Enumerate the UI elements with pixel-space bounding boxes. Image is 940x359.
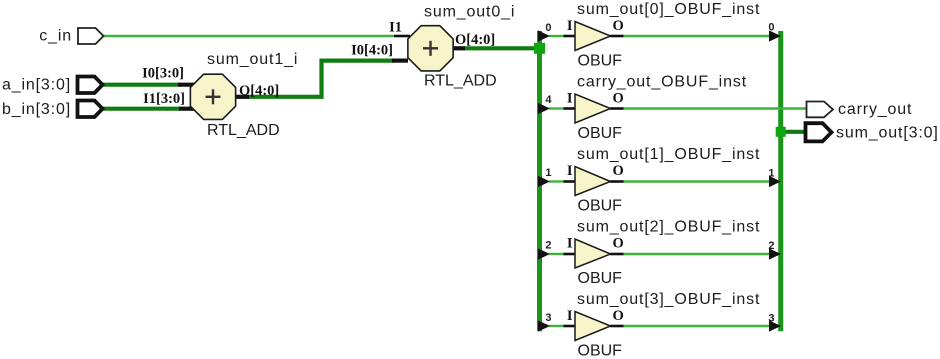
svg-text:I0[3:0]: I0[3:0] <box>142 66 184 82</box>
port b_in[3:0] <box>78 101 103 118</box>
svg-text:sum_out[1]_OBUF_inst: sum_out[1]_OBUF_inst <box>577 146 760 163</box>
svg-text:O[4:0]: O[4:0] <box>239 83 279 99</box>
svg-text:O: O <box>613 308 624 324</box>
bus rip arrow left row1 <box>538 30 550 41</box>
svg-text:I: I <box>567 236 573 252</box>
junction right bus <box>776 127 786 137</box>
pin stub b_in <box>179 107 195 111</box>
svg-text:I0[4:0]: I0[4:0] <box>351 43 393 59</box>
svg-text:carry_out: carry_out <box>838 101 912 118</box>
wire OBUF row5 output to right bus <box>623 325 770 327</box>
op adder U1 sum_out1_i RTL_ADD <box>190 74 235 119</box>
bus rip arrow left row5 <box>538 320 550 331</box>
wire OBUF row4 output to right bus <box>623 253 770 255</box>
wire left bus tap row5 <box>549 325 565 327</box>
svg-text:a_in[3:0]: a_in[3:0] <box>2 77 71 94</box>
svg-text:sum_out[3]_OBUF_inst: sum_out[3]_OBUF_inst <box>577 291 760 308</box>
svg-text:2: 2 <box>768 240 774 252</box>
wire c_in to adder0 I1 <box>104 35 395 37</box>
bus rip arrow right row3 <box>769 176 781 187</box>
wire OBUF row3 output to right bus <box>623 180 770 182</box>
wire OBUF row2 output to carry_out port <box>623 107 807 109</box>
bus rip arrow right row4 <box>769 248 781 259</box>
bus rip arrow left row3 <box>538 176 550 187</box>
svg-text:O: O <box>613 18 624 34</box>
svg-text:O[4:0]: O[4:0] <box>455 32 495 48</box>
wire b_in bus to adder1 I1 <box>103 107 181 111</box>
pin stub adder0 I0 <box>392 58 408 62</box>
wire left bus tap row1 <box>549 35 565 37</box>
pin stub adder1 O <box>234 95 249 99</box>
svg-text:OBUF: OBUF <box>578 125 623 142</box>
svg-text:0: 0 <box>768 22 774 34</box>
svg-text:OBUF: OBUF <box>578 198 623 215</box>
svg-text:b_in[3:0]: b_in[3:0] <box>2 101 71 118</box>
svg-text:1: 1 <box>545 167 551 179</box>
bus rip arrow right row5 <box>769 320 781 331</box>
bus rip arrow right row1 <box>769 30 781 41</box>
wire left bus tap row3 <box>549 180 565 182</box>
svg-text:I: I <box>567 91 573 107</box>
svg-text:1: 1 <box>768 168 774 180</box>
junction left bus <box>534 43 545 54</box>
wire left bus tap row2 <box>549 107 565 109</box>
svg-text:I: I <box>567 163 573 179</box>
svg-text:4: 4 <box>545 94 552 106</box>
svg-text:O: O <box>613 91 624 107</box>
wire a_in bus to adder1 I0 <box>103 83 181 87</box>
pin stub a_in <box>178 83 195 87</box>
svg-text:RTL_ADD: RTL_ADD <box>424 73 497 90</box>
svg-text:O: O <box>613 236 624 252</box>
svg-text:I: I <box>567 18 573 34</box>
svg-text:OBUF: OBUF <box>578 270 623 287</box>
svg-text:0: 0 <box>545 22 551 34</box>
svg-text:RTL_ADD: RTL_ADD <box>207 122 280 139</box>
buffer OBUF row5 sum_out[3]_OBUF_inst <box>564 312 624 341</box>
wire adder0 O[4:0] to left bus <box>464 46 540 50</box>
wire OBUF row1 output to right bus <box>623 35 770 37</box>
svg-text:sum_out[0]_OBUF_inst: sum_out[0]_OBUF_inst <box>577 1 760 18</box>
op adder U2 sum_out0_i RTL_ADD <box>408 26 453 71</box>
port sum_out[3:0] <box>806 123 832 141</box>
svg-text:3: 3 <box>768 313 774 325</box>
port a_in[3:0] <box>78 77 103 94</box>
wire left bus tap row4 <box>549 253 565 255</box>
bus rip arrow left row4 <box>538 248 550 259</box>
port carry_out <box>807 102 834 118</box>
wire right bus to sum_out port <box>782 130 806 134</box>
buffer OBUF row4 sum_out[2]_OBUF_inst <box>564 239 624 268</box>
svg-text:I: I <box>567 308 573 324</box>
svg-text:OBUF: OBUF <box>578 53 623 70</box>
svg-text:3: 3 <box>545 312 551 324</box>
svg-text:I1: I1 <box>389 20 402 36</box>
pin stub adder0 O <box>451 46 465 50</box>
svg-text:sum_out1_i: sum_out1_i <box>207 51 298 68</box>
svg-text:sum_out0_i: sum_out0_i <box>424 4 515 21</box>
pin stub adder0 I1 <box>394 35 410 38</box>
wire adder1 O[4:0] route to adder0 I0[4:0] <box>248 61 393 97</box>
svg-text:c_in: c_in <box>39 28 72 45</box>
svg-text:carry_out_OBUF_inst: carry_out_OBUF_inst <box>577 74 747 91</box>
buffer OBUF row1 sum_out[0]_OBUF_inst <box>564 22 624 51</box>
right vertical bus net sum_out[3:0] <box>778 31 783 331</box>
left vertical bus net sum_out0 <box>537 31 542 331</box>
svg-text:sum_out[2]_OBUF_inst: sum_out[2]_OBUF_inst <box>577 219 760 236</box>
buffer OBUF row2 carry_out_OBUF_inst <box>564 94 624 123</box>
buffer OBUF row3 sum_out[1]_OBUF_inst <box>564 167 624 196</box>
svg-text:OBUF: OBUF <box>578 343 623 359</box>
svg-text:2: 2 <box>545 240 551 252</box>
port c_in <box>78 28 104 44</box>
svg-text:sum_out[3:0]: sum_out[3:0] <box>836 124 939 141</box>
svg-text:I1[3:0]: I1[3:0] <box>143 91 185 107</box>
svg-text:O: O <box>613 163 624 179</box>
bus rip arrow left row2 <box>538 103 550 114</box>
